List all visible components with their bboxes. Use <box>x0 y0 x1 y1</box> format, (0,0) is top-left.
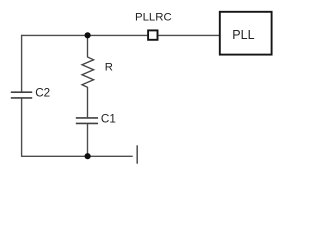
wire bottom rail: node B to right end <box>88 155 133 157</box>
svg-text:C2: C2 <box>35 86 50 99</box>
wire top rail: left corner to node A <box>22 34 88 36</box>
wire left branch lower: C2 bottom plate down to bottom rail <box>21 98 23 157</box>
wire top rail: node A to PLLRC terminal <box>88 34 148 36</box>
capacitor C2 bottom plate <box>11 97 32 99</box>
node B junction dot <box>85 153 91 159</box>
wire left branch upper: corner down to C2 top plate <box>21 35 23 92</box>
capacitor C1 bottom plate <box>76 122 98 124</box>
svg-text:PLLRC: PLLRC <box>135 12 172 24</box>
capacitor C1 top plate <box>76 117 98 119</box>
svg-text:C1: C1 <box>101 112 116 125</box>
svg-text:PLL: PLL <box>232 28 254 42</box>
block U1 PLL box <box>220 12 272 55</box>
wire bottom rail: left corner to node B <box>22 155 88 157</box>
wire: C1 bottom plate to node B <box>87 124 89 156</box>
capacitor C2 top plate <box>11 91 32 93</box>
svg-text:R: R <box>105 61 113 73</box>
node A junction dot <box>85 32 91 38</box>
node PLLRC terminal square <box>148 30 157 39</box>
terminator bar stub at right end of bottom rail <box>136 145 138 163</box>
wire: PLLRC terminal to PLL box <box>158 34 219 36</box>
resistor R (zigzag with leads) <box>82 35 94 117</box>
